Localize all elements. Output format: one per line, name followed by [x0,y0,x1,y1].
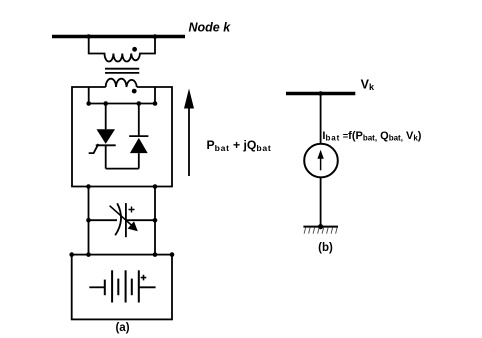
bus Vk [286,92,355,95]
battery bar short 1 [104,280,106,296]
node dot [153,218,158,223]
svg-text:(a): (a) [115,322,129,334]
diode cathode wire [138,104,140,137]
node dot [103,101,108,106]
wire secondary right lead down [154,87,156,104]
primary polarity dot [132,47,137,52]
power flow arrow [188,108,190,177]
transformer T1 secondary winding [106,79,137,87]
battery B left lead [89,286,105,288]
node dot [153,252,158,257]
capacitor right wire [126,219,155,221]
battery bar tall 2 [125,270,127,302]
battery bar tall 1 [111,270,113,302]
thyristor gate [89,144,99,153]
capacitor C curved plate [115,203,121,235]
dc rail left [88,187,90,255]
node dot [86,252,91,257]
thyristor [97,129,116,144]
capacitor variable arrow [110,206,133,227]
capacitor plus sign [129,207,135,213]
node dot [86,101,91,106]
converter box [72,87,172,187]
transformer core [105,68,139,70]
node dot [69,252,74,257]
battery bar short 3 [131,279,133,296]
ground [303,226,338,228]
current source Ibat [304,144,338,178]
wire source to ground [320,177,322,227]
wire bus to source [320,94,322,145]
node dot [86,218,91,223]
node dot [137,101,142,106]
node dot [153,101,158,106]
junction dot bus left [86,34,91,39]
diode [129,135,148,137]
bridge top bus wire [89,103,155,105]
node dot [170,252,175,257]
current source arrow [320,158,322,171]
junction dot bus right [153,34,158,39]
transformer T1 primary winding [89,37,155,62]
capacitor C straight plate [125,203,127,237]
secondary polarity dot [132,89,137,94]
wire secondary left lead down [88,87,90,104]
node dot box bottom left [86,184,91,189]
thyristor anode wire [105,104,107,130]
svg-text:Node k: Node k [189,21,232,35]
battery box [72,255,172,320]
thyristor cathode wire [105,145,107,168]
svg-text:(b): (b) [318,242,333,254]
dc rail right [154,187,156,255]
battery right lead [139,286,156,288]
diode anode wire [138,153,140,169]
junction dot [318,91,323,96]
battery bar tall 3 [138,270,140,302]
node dot box bottom right [153,184,158,189]
node bus Node k [52,35,185,38]
battery bar short 2 [117,279,119,296]
battery plus sign [141,275,147,281]
capacitor left wire [89,219,118,221]
bridge bottom wire [106,168,139,170]
